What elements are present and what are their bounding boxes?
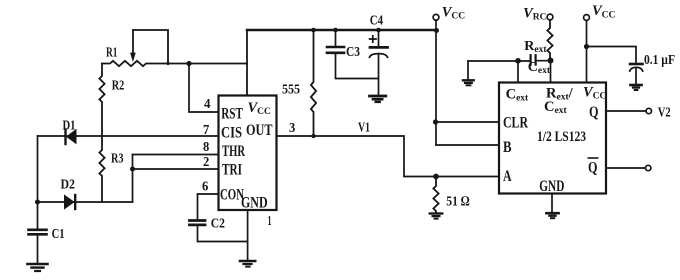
junction C3 rail [333,28,338,33]
capacitor C2 [190,221,248,242]
junction TRI tie [130,167,135,172]
svg-text:3: 3 [289,121,295,136]
wire bypass branch [587,47,637,64]
junction CLR [433,119,438,124]
svg-text:VCC: VCC [442,5,466,22]
diode D1 [66,130,77,145]
wire Cext pin lead [517,61,519,83]
wire CON branch [198,194,219,219]
svg-text:V1: V1 [358,121,370,136]
ground left of Cext [463,61,474,85]
terminal Vcc right [584,15,590,83]
svg-text:0.1 µF: 0.1 µF [644,53,675,68]
svg-text:C4: C4 [370,13,383,28]
resistor pull-up 555 [311,30,316,136]
svg-text:Cext: Cext [506,86,529,103]
terminal Qbar [646,165,651,170]
wire pin4 branch [189,64,219,113]
ground under C4 [370,96,386,102]
ground under LS123 [546,213,558,218]
terminal V2 [646,108,651,113]
resistor R2 [99,64,104,137]
wire Q output [606,110,646,112]
wire Qbar output [606,167,645,169]
wire Cext net [468,60,551,62]
wire OUT / V1 [277,136,500,177]
junction A row [433,174,439,180]
op LS123 box U2 [499,83,606,194]
svg-text:CLR: CLR [503,115,528,132]
wire left vertical [37,136,39,229]
terminal Vcc middle [433,14,439,30]
node RST branch junction [186,61,191,66]
svg-text:C2: C2 [211,216,225,231]
junction pull-up bottom [311,134,315,138]
svg-text:VCC: VCC [248,100,272,117]
svg-text:1: 1 [268,214,272,229]
svg-text:V2: V2 [658,106,671,121]
svg-text:1/2 LS123: 1/2 LS123 [537,129,586,145]
svg-text:GND: GND [241,194,268,211]
svg-text:RST: RST [221,106,243,123]
wire LS123 GND lead [551,194,553,213]
resistor Rext [547,20,552,61]
svg-text:Rext: Rext [524,39,547,55]
wire top VCC rail [247,29,437,31]
svg-text:THR: THR [222,143,245,160]
wire 555 Vcc pin lead [246,30,248,96]
diode D2 [65,195,76,209]
junction R1 wiper loop [166,62,169,65]
svg-text:C1: C1 [52,227,65,242]
junction Vcc bypass [584,44,589,49]
wire Rext/Cext pin lead [550,61,552,83]
svg-text:A: A [503,168,512,185]
svg-text:TRI: TRI [222,162,242,179]
svg-text:6: 6 [202,180,208,195]
wire THR-TRI tie vertical [132,155,134,203]
wire B row [436,144,499,146]
wire TRI row [133,168,219,170]
svg-text:VCC: VCC [583,85,607,102]
junction Rext bottom [548,58,554,64]
ground under C1 [28,264,48,271]
svg-text:2: 2 [203,155,209,170]
junction Vcc rail [434,28,439,33]
svg-text:B: B [503,139,512,156]
svg-text:D1: D1 [63,119,76,134]
capacitor C4 electrolytic [370,30,388,95]
ground under 555 [240,261,255,267]
wire Vcc to CLR/B [435,30,437,145]
svg-text:C3: C3 [346,45,360,60]
svg-text:R2: R2 [112,79,125,94]
resistor R3 [99,136,104,202]
svg-text:VCC: VCC [592,3,616,20]
junction C4 rail [376,28,381,33]
svg-text:555: 555 [282,83,300,98]
junction left vertical at D2 [35,200,40,205]
svg-text:VRC: VRC [523,5,547,22]
svg-text:51 Ω: 51 Ω [446,195,469,210]
ground under 0.1uF [630,85,641,90]
junction pull-up top [311,28,316,33]
svg-text:4: 4 [204,97,211,112]
wire CLR row [436,121,500,123]
svg-text:Cext: Cext [528,60,551,76]
svg-text:R3: R3 [111,152,124,167]
svg-text:GND: GND [539,178,564,195]
junction Cext pin [515,58,521,64]
wire CIS / D1 row [38,135,219,137]
wire THR row [133,154,219,156]
ground under 51 ohm [430,214,442,219]
svg-text:R1: R1 [106,45,118,60]
resistor R1 (potentiometer) [102,30,247,66]
wire 555 GND lead [247,210,249,260]
svg-text:OUT: OUT [246,122,273,139]
svg-text:Q: Q [588,160,598,177]
capacitor C3 [327,30,379,79]
svg-text:7: 7 [203,123,209,138]
svg-text:8: 8 [203,140,209,155]
op 555 box U1 [219,96,277,211]
capacitor C1 [29,230,47,263]
capacitor 0.1uF [630,64,643,84]
capacitor Cext external [531,55,536,64]
wire D2 row [38,201,133,203]
svg-text:CIS: CIS [221,125,242,142]
terminal VRC [547,14,553,20]
svg-text:Q: Q [589,104,599,121]
svg-text:D2: D2 [61,178,76,193]
resistor 51 ohm [433,177,438,213]
